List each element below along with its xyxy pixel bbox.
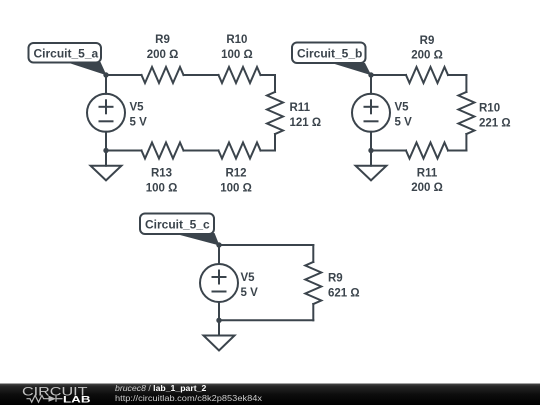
svg-text:LAB: LAB [63,395,91,405]
svg-text:221 Ω: 221 Ω [479,117,511,129]
svg-text:Circuit_5_c: Circuit_5_c [145,218,210,232]
svg-text:R9: R9 [328,273,343,285]
svg-text:brucec8 / lab_1_part_2: brucec8 / lab_1_part_2 [115,383,206,393]
svg-text:Circuit_5_b: Circuit_5_b [297,47,362,61]
svg-text:R11: R11 [417,168,438,180]
svg-text:R10: R10 [479,103,500,115]
svg-text:5 V: 5 V [395,117,413,129]
svg-text:http://circuitlab.com/c8k2p853: http://circuitlab.com/c8k2p853ek84x [115,393,263,403]
svg-text:R13: R13 [151,167,172,179]
svg-text:200 Ω: 200 Ω [147,49,179,61]
svg-text:100 Ω: 100 Ω [221,49,253,61]
svg-text:100 Ω: 100 Ω [146,182,178,194]
svg-text:121 Ω: 121 Ω [290,117,322,129]
svg-text:Circuit_5_a: Circuit_5_a [34,47,99,61]
svg-text:R10: R10 [226,34,247,46]
svg-text:V5: V5 [130,102,145,114]
svg-text:200 Ω: 200 Ω [411,50,443,62]
svg-text:5 V: 5 V [130,117,148,129]
svg-text:R11: R11 [290,102,311,114]
svg-text:200 Ω: 200 Ω [411,182,443,194]
svg-text:R12: R12 [225,167,246,179]
svg-text:100 Ω: 100 Ω [220,182,252,194]
svg-text:R9: R9 [420,35,435,47]
svg-text:V5: V5 [241,272,256,284]
svg-text:621 Ω: 621 Ω [328,288,360,300]
svg-text:5 V: 5 V [241,287,259,299]
svg-text:V5: V5 [395,102,410,114]
svg-text:R9: R9 [155,34,170,46]
